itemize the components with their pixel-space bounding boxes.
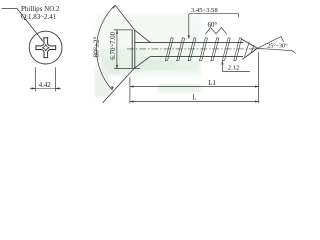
svg-text:Phillips NO.2: Phillips NO.2 <box>21 5 60 13</box>
svg-text:6.70~7.00: 6.70~7.00 <box>110 31 117 59</box>
svg-text:25°~30°: 25°~30° <box>267 43 288 50</box>
svg-text:4.42: 4.42 <box>39 82 51 89</box>
svg-text:3.45~3.58: 3.45~3.58 <box>191 7 218 14</box>
svg-text:Q:1.83~2.41: Q:1.83~2.41 <box>21 13 57 21</box>
svg-text:2.12: 2.12 <box>228 65 240 72</box>
svg-text:80°±2°: 80°±2° <box>91 36 100 57</box>
svg-text:L1: L1 <box>208 80 216 87</box>
svg-text:60°: 60° <box>208 21 218 29</box>
svg-text:L: L <box>192 95 196 102</box>
